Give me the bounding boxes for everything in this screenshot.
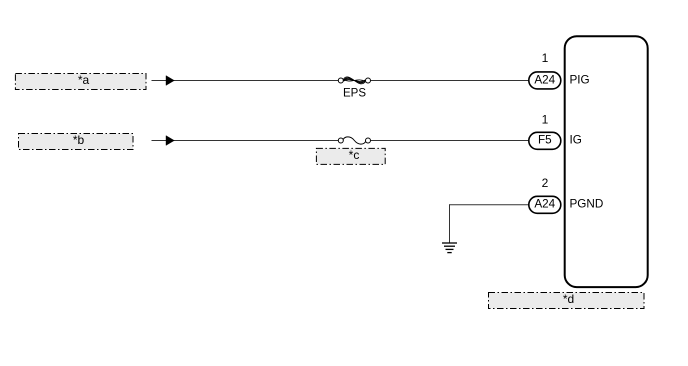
note box *c [316,148,385,164]
ground [442,243,457,253]
svg-text:1: 1 [542,51,549,65]
arrow row2 [166,136,174,146]
svg-text:PIG: PIG [570,73,590,86]
svg-text:2: 2 [542,176,549,190]
wire row2 right [371,140,529,142]
svg-text:F5: F5 [538,134,552,147]
note box *d [489,292,645,308]
source box *b [19,133,134,149]
fuse F5 wave [343,137,365,144]
svg-text:1: 1 [542,112,549,126]
svg-text:*c: *c [349,148,360,162]
wire row1 left [152,80,339,82]
connector F5 pin 1 [529,132,561,149]
wire PGND horizontal [450,204,529,206]
arrow row1 [166,76,174,86]
source box *a [15,73,146,89]
wire PGND vertical [449,204,451,242]
svg-text:PGND: PGND [570,198,604,211]
svg-text:*a: *a [78,73,90,87]
fuse EPS braid [344,77,366,84]
svg-text:IG: IG [570,134,582,147]
svg-text:A24: A24 [534,73,555,86]
fuse EPS terminal circle left [338,78,343,83]
wire row1 right [371,80,529,82]
connector A24 pin 2 [529,196,561,213]
svg-text:*d: *d [563,292,574,306]
connector A24 pin 1 [529,72,561,89]
ECU block U1 [565,36,648,287]
fuse EPS terminal circle right [366,78,371,83]
wire row2 left [152,140,339,142]
fuse F5 terminal circle right [366,138,371,143]
svg-text:A24: A24 [534,198,555,211]
svg-text:*b: *b [73,133,85,147]
fuse F5 terminal circle left [338,138,343,143]
svg-text:EPS: EPS [343,88,366,100]
